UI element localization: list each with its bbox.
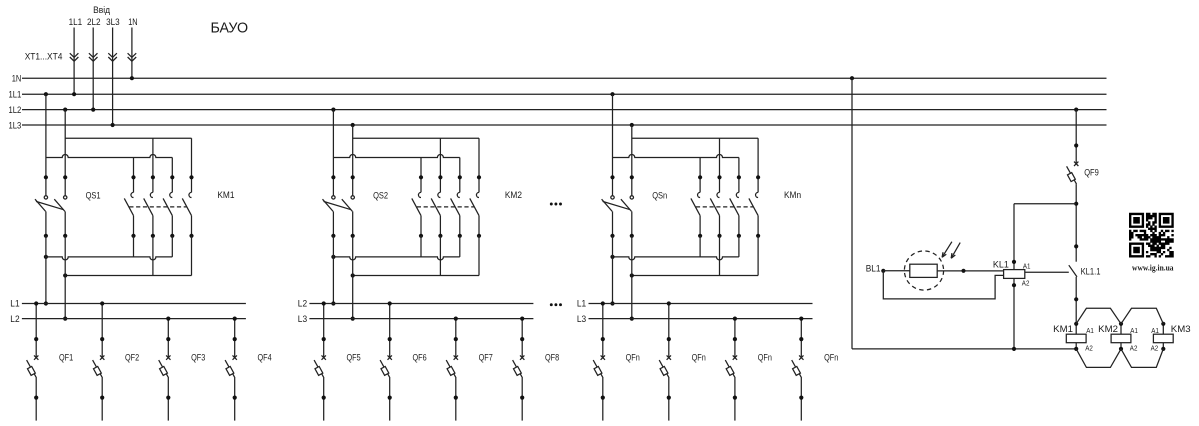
svg-text:A2: A2 bbox=[1130, 344, 1138, 353]
wire QS pole1 feed bbox=[45, 94, 47, 195]
wire bus L2 bbox=[309, 303, 533, 305]
svg-text:QF8: QF8 bbox=[545, 352, 559, 362]
svg-text:A1: A1 bbox=[1130, 326, 1138, 335]
label QFn bbox=[758, 352, 772, 362]
label bus 1N bbox=[12, 74, 22, 84]
svg-text:QSn: QSn bbox=[652, 190, 667, 200]
node tap pole1 bbox=[44, 92, 48, 96]
wire bottom line lower bbox=[632, 275, 758, 277]
svg-text:KM1: KM1 bbox=[1053, 324, 1073, 334]
svg-text:QF9: QF9 bbox=[1084, 168, 1099, 178]
wire top line lower bbox=[333, 155, 459, 158]
wire bus L3 bbox=[309, 318, 533, 320]
node KM3 A1 bbox=[1161, 322, 1165, 326]
wire bottom line lower bbox=[353, 275, 479, 277]
breaker QF4 bbox=[225, 317, 237, 421]
label BL1 bbox=[866, 263, 881, 273]
breaker QF2 bbox=[93, 301, 105, 420]
svg-text:A1: A1 bbox=[1023, 261, 1031, 270]
svg-text:QF3: QF3 bbox=[191, 352, 205, 362]
wire bottom line lower bbox=[65, 275, 191, 277]
node KL1 A1 bbox=[1012, 260, 1016, 264]
wire KM pole2 out bbox=[719, 236, 721, 276]
breaker QF7 bbox=[446, 317, 458, 421]
node coil feed bbox=[1074, 297, 1078, 301]
wire BL1 return loop bbox=[883, 271, 1003, 299]
wire KM1 A2 stub bbox=[1075, 343, 1077, 349]
wire QF9 feed bbox=[1075, 110, 1077, 164]
label input 2L2 bbox=[87, 17, 101, 27]
node terminal pole2 bbox=[351, 175, 355, 179]
node 1N on bus bbox=[130, 76, 134, 80]
label QF5 bbox=[347, 352, 361, 362]
node QS pole1 out bbox=[44, 255, 48, 259]
svg-text:KM1: KM1 bbox=[217, 190, 234, 200]
wire A2 bridge KM1-KM2 bbox=[1076, 349, 1121, 368]
breaker QF8 bbox=[513, 317, 525, 421]
node KM2 A2 bbox=[1119, 347, 1123, 351]
photoresistor BL1 body bbox=[910, 264, 937, 277]
node terminal pole2 bbox=[630, 175, 634, 179]
label bus L3 bbox=[577, 314, 586, 324]
svg-text:BL1: BL1 bbox=[866, 263, 881, 273]
wire QF9 out bbox=[1075, 184, 1077, 262]
label KMn bbox=[784, 190, 801, 200]
label QF8 bbox=[545, 352, 559, 362]
node 3L3 on bus bbox=[111, 123, 115, 127]
label KM2 bbox=[505, 190, 522, 200]
svg-text:QF4: QF4 bbox=[258, 352, 272, 362]
wire pole2 to bus bbox=[631, 236, 633, 319]
wire KM pole3 out bbox=[459, 236, 461, 257]
label bus 1L1 bbox=[9, 90, 22, 100]
svg-text:KM2: KM2 bbox=[1098, 324, 1118, 334]
svg-text:A1: A1 bbox=[1086, 326, 1094, 335]
svg-text:1L3: 1L3 bbox=[9, 120, 22, 130]
wire pole2 to bus bbox=[352, 236, 354, 319]
node pole1 on out bus bbox=[331, 301, 335, 305]
wire KL1 A2 bbox=[1013, 278, 1015, 349]
label bus 1L3 bbox=[9, 120, 22, 130]
node KL1 A2 rail bbox=[1012, 347, 1016, 351]
node QF9 terminal bbox=[1074, 143, 1078, 147]
svg-text:QF2: QF2 bbox=[125, 352, 139, 362]
svg-text:БАУО: БАУО bbox=[211, 20, 249, 37]
label QF6 bbox=[413, 352, 427, 362]
label KL1 A2 bbox=[1022, 279, 1030, 288]
wire top line lower bbox=[46, 155, 172, 158]
breaker QFn bbox=[792, 317, 804, 421]
label bus 1L2 bbox=[9, 105, 22, 115]
svg-text:QFn: QFn bbox=[626, 352, 640, 362]
terminal arrow XT 3L3 bbox=[108, 53, 117, 61]
node BL1 left bbox=[881, 269, 885, 273]
wire bus L3 bbox=[589, 318, 813, 320]
label QF4 bbox=[258, 352, 272, 362]
wire QS pole2 feed bbox=[64, 110, 66, 196]
wire KL1.1 out bbox=[1075, 277, 1077, 334]
label QS2 bbox=[373, 190, 388, 200]
node terminal pole1 bbox=[331, 175, 335, 179]
label БАУО title bbox=[211, 20, 249, 37]
contactor KMn bbox=[691, 138, 760, 238]
breaker QF6 bbox=[380, 301, 392, 420]
label QF3 bbox=[191, 352, 205, 362]
wire KM pole4 out bbox=[191, 236, 193, 276]
svg-text:QF1: QF1 bbox=[59, 352, 73, 362]
label KM1 bbox=[217, 190, 234, 200]
node QF9 tap 1L2 bbox=[1074, 108, 1078, 112]
svg-text:www.ig.in.ua: www.ig.in.ua bbox=[1132, 264, 1174, 273]
node 1N control tap bbox=[850, 76, 854, 80]
node KM3 A2 bbox=[1161, 347, 1165, 351]
node pole1 on out bus bbox=[44, 301, 48, 305]
wire jog to KL1 bbox=[1014, 203, 1076, 205]
wire bus 1L3 bbox=[22, 124, 1107, 126]
wire KM3 A2 stub bbox=[1162, 343, 1164, 349]
node QF9 jog bbox=[1074, 202, 1078, 206]
switch QS1 bbox=[35, 196, 67, 238]
svg-text:1N: 1N bbox=[128, 17, 137, 27]
svg-text:KM3: KM3 bbox=[1171, 324, 1191, 334]
svg-text:2L2: 2L2 bbox=[87, 17, 101, 27]
svg-text:3L3: 3L3 bbox=[106, 17, 120, 27]
node BL1 right bbox=[961, 269, 965, 273]
label KL1 A1 bbox=[1023, 261, 1031, 270]
node KM1 A2 bbox=[1074, 347, 1078, 351]
wire neutral rail bbox=[852, 348, 1076, 350]
label input 3L3 bbox=[106, 17, 120, 27]
label KM1 A1 bbox=[1086, 326, 1094, 335]
wire bus L1 bbox=[22, 303, 246, 305]
svg-text:KL1.1: KL1.1 bbox=[1081, 267, 1101, 277]
switch QSn bbox=[602, 196, 634, 238]
wire top line upper bbox=[65, 137, 191, 139]
label QFn bbox=[626, 352, 640, 362]
wire bus 1L2 bbox=[22, 109, 1107, 111]
label KM1 A2 bbox=[1085, 344, 1093, 353]
label QFn bbox=[824, 352, 838, 362]
wire top line upper bbox=[353, 137, 479, 139]
wire A1 bridge KM2-KM3 bbox=[1121, 308, 1163, 324]
breaker QF1 bbox=[27, 301, 39, 420]
wire bus L1 bbox=[589, 303, 813, 305]
svg-text:L3: L3 bbox=[298, 314, 307, 324]
label QF7 bbox=[479, 352, 493, 362]
wire A2 bridge KM2-KM3 bbox=[1121, 349, 1163, 368]
node tap pole1 bbox=[331, 108, 335, 112]
wire BL1 left lead bbox=[883, 270, 910, 272]
coil KM2 body bbox=[1111, 334, 1131, 343]
label Ввід bbox=[93, 5, 111, 15]
node tap pole2 bbox=[63, 108, 67, 112]
label KM3 A2 bbox=[1151, 344, 1159, 353]
wire top line lower bbox=[613, 155, 739, 158]
wire pole2 to bus bbox=[64, 236, 66, 319]
svg-text:A2: A2 bbox=[1022, 279, 1030, 288]
node QS pole2 out bbox=[630, 273, 634, 277]
label input 1N bbox=[128, 17, 137, 27]
contactor KM2 bbox=[412, 138, 481, 238]
svg-text:QF5: QF5 bbox=[347, 352, 361, 362]
svg-text:KMn: KMn bbox=[784, 190, 801, 200]
label QS1 bbox=[86, 190, 101, 200]
node tap pole1 bbox=[610, 92, 614, 96]
relay coil KL1 bbox=[1004, 270, 1025, 279]
label KM1 coil bbox=[1053, 324, 1073, 334]
wire KM pole3 out bbox=[171, 236, 173, 257]
svg-text:QF6: QF6 bbox=[413, 352, 427, 362]
breaker QF5 bbox=[314, 301, 326, 420]
label KM3 coil bbox=[1171, 324, 1191, 334]
svg-text:QF7: QF7 bbox=[479, 352, 493, 362]
light arrow 2 bbox=[951, 243, 960, 259]
wire KM pole4 out bbox=[478, 236, 480, 276]
label KL1.1 bbox=[1081, 267, 1101, 277]
breaker QFn bbox=[725, 317, 737, 421]
svg-text:1L1: 1L1 bbox=[9, 90, 22, 100]
contactor KM1 bbox=[124, 138, 193, 238]
node QS pole2 out bbox=[63, 273, 67, 277]
node tap pole2 bbox=[630, 123, 634, 127]
svg-text:L1: L1 bbox=[10, 299, 19, 309]
label QF9 bbox=[1084, 168, 1099, 178]
ellipsis middle bbox=[550, 203, 562, 206]
label QFn bbox=[692, 352, 706, 362]
svg-text:L1: L1 bbox=[577, 299, 586, 309]
label KM3 A1 bbox=[1151, 326, 1159, 335]
wire input 3L3 bbox=[112, 28, 114, 126]
node KM1 A1 bbox=[1074, 322, 1078, 326]
ellipsis buses bbox=[550, 303, 562, 306]
wire KM2 A1 stub bbox=[1120, 324, 1122, 334]
wire pole1 to bus bbox=[332, 236, 334, 304]
wire bus 1N bbox=[22, 77, 1107, 79]
wire input 1L1 bbox=[73, 28, 75, 95]
label bus L1 bbox=[10, 299, 19, 309]
breaker QFn bbox=[593, 301, 605, 420]
svg-text:KL1: KL1 bbox=[993, 260, 1009, 270]
wire KM pole4 out bbox=[757, 236, 759, 276]
wire KM pole1 out bbox=[420, 236, 422, 257]
terminal arrow XT 2L2 bbox=[89, 53, 98, 61]
wire KM pole3 out bbox=[738, 236, 740, 257]
wire bottom line upper bbox=[613, 257, 739, 260]
node QS pole1 out bbox=[610, 255, 614, 259]
light arrow 1 bbox=[942, 242, 952, 258]
node terminal pole2 bbox=[63, 175, 67, 179]
svg-text:QFn: QFn bbox=[824, 352, 838, 362]
switch QS2 bbox=[323, 196, 355, 238]
svg-text:QFn: QFn bbox=[692, 352, 706, 362]
contact KL1.1 bbox=[1069, 265, 1077, 277]
label bus L2 bbox=[298, 299, 307, 309]
label www.ig.in.ua bbox=[1132, 264, 1174, 273]
label input 1L1 bbox=[69, 17, 83, 27]
wire KM3 A1 stub bbox=[1162, 324, 1164, 334]
label KM2 A2 bbox=[1130, 344, 1138, 353]
wire top line upper bbox=[632, 137, 758, 139]
node 2L2 on bus bbox=[91, 108, 95, 112]
svg-text:L2: L2 bbox=[298, 299, 307, 309]
photoresistor BL1 circle bbox=[904, 251, 943, 290]
svg-text:A1: A1 bbox=[1151, 326, 1159, 335]
node KL1 A2 bbox=[1012, 283, 1016, 287]
label KM2 coil bbox=[1098, 324, 1118, 334]
wire BL1 right lead bbox=[937, 270, 1003, 272]
wire KM pole2 out bbox=[439, 236, 441, 276]
node pole2 on out bus bbox=[351, 317, 355, 321]
wire QS pole1 feed bbox=[332, 110, 334, 196]
wire QS pole2 feed bbox=[631, 125, 633, 196]
svg-text:1L1: 1L1 bbox=[69, 17, 83, 27]
svg-text:A2: A2 bbox=[1085, 344, 1093, 353]
label QSn bbox=[652, 190, 667, 200]
label bus L1 bbox=[577, 299, 586, 309]
node KM2 A1 bbox=[1119, 322, 1123, 326]
svg-text:A2: A2 bbox=[1151, 344, 1159, 353]
label KM2 A1 bbox=[1130, 326, 1138, 335]
svg-text:KM2: KM2 bbox=[505, 190, 522, 200]
label QF2 bbox=[125, 352, 139, 362]
wire bus 1L1 bbox=[22, 93, 1107, 95]
svg-text:QS2: QS2 bbox=[373, 190, 388, 200]
label QF1 bbox=[59, 352, 73, 362]
coil KM1 body bbox=[1066, 334, 1086, 343]
node pole2 on out bus bbox=[630, 317, 634, 321]
node terminal pole1 bbox=[610, 175, 614, 179]
terminal arrow XT 1L1 bbox=[70, 53, 79, 61]
wire input 2L2 bbox=[92, 28, 94, 110]
label bus L2 bbox=[10, 314, 19, 324]
wire bottom line upper bbox=[46, 257, 172, 260]
svg-text:Ввід: Ввід bbox=[93, 5, 111, 15]
node QS pole2 out bbox=[351, 273, 355, 277]
node terminal bbox=[1074, 244, 1078, 248]
svg-text:1L2: 1L2 bbox=[9, 105, 22, 115]
node 1L1 on bus bbox=[72, 92, 76, 96]
svg-text:QS1: QS1 bbox=[86, 190, 101, 200]
svg-text:QFn: QFn bbox=[758, 352, 772, 362]
node QS pole1 out bbox=[331, 255, 335, 259]
svg-text:XT1...XT4: XT1...XT4 bbox=[25, 52, 63, 62]
breaker QFn bbox=[659, 301, 671, 420]
wire bus L2 bbox=[22, 318, 246, 320]
wire QS pole1 feed bbox=[612, 94, 614, 195]
label XT1...XT4 bbox=[25, 52, 63, 62]
wire KM2 A2 stub bbox=[1120, 343, 1122, 349]
wire KL1 A1 feed bbox=[1013, 204, 1015, 270]
wire input 1N bbox=[131, 28, 133, 79]
coil KM3 body bbox=[1153, 334, 1173, 343]
wire A1 bridge KM1-KM2 bbox=[1076, 308, 1121, 324]
QR code bbox=[1129, 213, 1174, 258]
wire pole1 to bus bbox=[45, 236, 47, 304]
wire KM pole1 out bbox=[699, 236, 701, 257]
wire QS pole2 feed bbox=[352, 125, 354, 196]
wire bottom line upper bbox=[333, 257, 459, 260]
svg-text:L3: L3 bbox=[577, 314, 586, 324]
node tap pole2 bbox=[351, 123, 355, 127]
wire neutral drop bbox=[851, 78, 853, 349]
breaker QF9 bbox=[1067, 162, 1079, 185]
wire KM pole2 out bbox=[152, 236, 154, 276]
node pole1 on out bus bbox=[610, 301, 614, 305]
svg-text:1N: 1N bbox=[12, 74, 22, 84]
wire KL1 output bbox=[1025, 271, 1069, 273]
svg-text:L2: L2 bbox=[10, 314, 19, 324]
breaker QF3 bbox=[159, 317, 171, 421]
label KL1 bbox=[993, 260, 1009, 270]
node pole2 on out bus bbox=[63, 317, 67, 321]
wire KM pole1 out bbox=[133, 236, 135, 257]
wire pole1 to bus bbox=[612, 236, 614, 304]
node terminal pole1 bbox=[44, 175, 48, 179]
label bus L3 bbox=[298, 314, 307, 324]
terminal arrow XT 1N bbox=[128, 53, 137, 61]
